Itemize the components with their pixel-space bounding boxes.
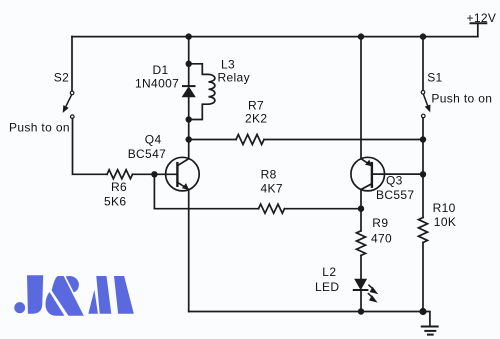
wire Q3 emitter from rail bbox=[360, 37, 362, 159]
svg-text:L3: L3 bbox=[221, 58, 235, 72]
resistor R10 bbox=[419, 218, 428, 243]
node D1 rail junction bbox=[186, 33, 192, 39]
node Q3 collector junction bbox=[358, 206, 364, 212]
svg-text:BC547: BC547 bbox=[128, 147, 166, 161]
svg-text:R9: R9 bbox=[372, 216, 388, 230]
node D1 top bbox=[186, 61, 192, 67]
diode D1 bbox=[183, 64, 195, 120]
resistor R9 bbox=[357, 231, 366, 256]
node Q3 base junction bbox=[420, 171, 426, 177]
svg-text:R6: R6 bbox=[111, 180, 127, 194]
svg-text:2K2: 2K2 bbox=[245, 112, 267, 126]
svg-text:Push to on: Push to on bbox=[431, 92, 492, 106]
wire down to Q3 base node bbox=[422, 140, 424, 175]
svg-text:Q4: Q4 bbox=[145, 132, 162, 146]
wire Q3 collector down bbox=[360, 190, 362, 209]
svg-text:+12V: +12V bbox=[467, 11, 497, 25]
wire node to R9 bbox=[360, 209, 362, 231]
svg-text:BC557: BC557 bbox=[376, 188, 414, 202]
svg-text:Push to on: Push to on bbox=[9, 120, 70, 134]
svg-text:R7: R7 bbox=[248, 98, 264, 112]
svg-text:10K: 10K bbox=[434, 215, 456, 229]
wire top rail bbox=[72, 36, 478, 38]
inductor L3 relay coil bbox=[189, 64, 215, 120]
node S1 R7 junction bbox=[420, 136, 426, 142]
resistor R8 bbox=[259, 204, 285, 213]
svg-text:5K6: 5K6 bbox=[104, 195, 126, 209]
node Q3 emitter rail junction bbox=[358, 33, 364, 39]
node S1 rail junction bbox=[420, 33, 426, 39]
wire bottom rail bbox=[189, 311, 423, 313]
switch S1 bbox=[421, 91, 430, 118]
wire S1 branch from rail bbox=[422, 37, 424, 91]
wire LED to bottom rail bbox=[360, 290, 362, 312]
wire S1 to R7 node bbox=[422, 118, 424, 140]
wire D1 bottom to R7 node bbox=[188, 120, 190, 140]
node base Q4 junction bbox=[151, 171, 157, 177]
svg-text:1N4007: 1N4007 bbox=[135, 77, 179, 91]
svg-text:LED: LED bbox=[315, 280, 339, 294]
wire Q4 base node down to R8 bbox=[154, 174, 258, 208]
svg-text:L2: L2 bbox=[322, 265, 336, 279]
wire R7 right lead to S1 branch bbox=[264, 139, 423, 141]
resistor R6 bbox=[107, 170, 133, 179]
node R7 left bbox=[186, 136, 192, 142]
wire S2 to R6 corner bbox=[73, 119, 108, 175]
svg-text:4K7: 4K7 bbox=[261, 182, 283, 196]
svg-text:S2: S2 bbox=[54, 70, 69, 84]
LED L2 bbox=[354, 279, 377, 302]
svg-text:D1: D1 bbox=[153, 63, 169, 77]
svg-text:470: 470 bbox=[371, 232, 392, 246]
node ground rail junction bbox=[419, 308, 426, 315]
node D1 bottom bbox=[186, 116, 192, 122]
wire R8 to Q3 collector node bbox=[285, 208, 362, 210]
transistor Q3 bbox=[351, 157, 423, 191]
node LED rail junction bbox=[358, 308, 364, 314]
wire Q4 emitter down to bottom rail bbox=[188, 190, 190, 312]
ground bbox=[422, 312, 438, 335]
svg-text:S1: S1 bbox=[427, 70, 442, 84]
wire node to R10 bbox=[422, 174, 424, 217]
transistor Q4 bbox=[166, 157, 200, 191]
wire R9 to LED bbox=[360, 255, 362, 279]
wire R6 to Q4 base bbox=[133, 173, 178, 175]
svg-text:R8: R8 bbox=[261, 167, 277, 181]
logo J&M bbox=[14, 275, 134, 316]
svg-text:R10: R10 bbox=[433, 201, 456, 215]
wire D1 branch from rail bbox=[188, 37, 190, 64]
wire node to Q4 collector bbox=[188, 140, 190, 159]
wire R7 left lead bbox=[189, 139, 236, 141]
svg-text:Q3: Q3 bbox=[386, 173, 403, 187]
resistor R7 bbox=[236, 135, 264, 145]
power +12V bbox=[471, 23, 487, 36]
switch S2 bbox=[63, 91, 74, 118]
svg-text:Relay: Relay bbox=[218, 71, 250, 85]
wire R10 to bottom rail bbox=[422, 243, 424, 312]
wire left branch to S2 bbox=[71, 37, 73, 91]
